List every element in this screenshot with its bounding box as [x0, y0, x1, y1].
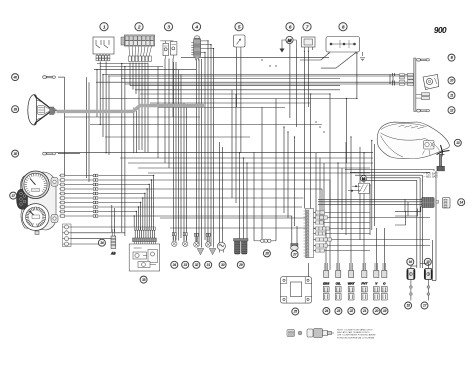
circle label 23 [335, 308, 342, 315]
wire [142, 198, 144, 227]
wire [144, 194, 146, 228]
wire [98, 175, 153, 177]
wire [130, 85, 340, 87]
junction [136, 211, 137, 212]
wire [196, 59, 198, 242]
turn arrow left [197, 249, 204, 255]
instrument cluster body [20, 172, 56, 230]
HT lead [427, 280, 429, 301]
connector 14 small [436, 201, 439, 204]
circle label 27 [291, 251, 298, 258]
svg-text:22: 22 [349, 309, 354, 313]
ignition coil [234, 239, 249, 255]
cluster bottom stub [35, 231, 39, 235]
wire [180, 75, 182, 239]
wire [314, 245, 316, 247]
wire [65, 215, 94, 217]
wire [325, 228, 327, 270]
wire [96, 70, 98, 117]
switch connector strip A [134, 227, 155, 230]
wire [98, 193, 144, 195]
wire [416, 180, 418, 268]
svg-text:34: 34 [173, 263, 177, 267]
indicator bulb 33 [183, 233, 188, 247]
wire [129, 63, 131, 86]
inline splice marks [393, 73, 395, 86]
tail connector stack 1 [408, 73, 414, 85]
circle label 18 [405, 302, 412, 309]
wire [407, 202, 409, 216]
wire [98, 216, 291, 226]
battery cable stub [437, 155, 445, 171]
tail mid connectors [416, 93, 430, 100]
tail bullet bottom [417, 109, 430, 112]
wire [154, 230, 156, 238]
wire [314, 233, 316, 235]
wire [283, 127, 285, 213]
circle label 30 [219, 261, 226, 268]
svg-text:M: M [362, 176, 366, 181]
circle label 40 [12, 74, 19, 81]
wire [356, 53, 358, 98]
wire [325, 250, 371, 252]
circle label 32 [193, 261, 200, 268]
wire [235, 94, 237, 203]
wire [404, 199, 406, 212]
circle label 37 [10, 192, 17, 199]
wire [86, 77, 88, 178]
circle label 17 [421, 302, 428, 309]
wire [296, 226, 298, 244]
wire [150, 180, 152, 227]
svg-text:18: 18 [406, 304, 410, 308]
junction dots [96, 40, 372, 185]
circle label 39 [12, 106, 19, 113]
wire [140, 93, 330, 95]
svg-text:OIL: OIL [336, 281, 341, 285]
cluster terminals [59, 174, 65, 217]
wire [392, 76, 394, 82]
wire [128, 162, 373, 164]
wire [240, 50, 242, 153]
wire [120, 157, 373, 159]
wire [135, 108, 137, 153]
wire [71, 243, 106, 245]
seat note text [423, 172, 439, 178]
wire [332, 239, 431, 241]
relay box 1 [93, 37, 114, 56]
wire [318, 198, 422, 200]
circle label 31 [205, 261, 212, 268]
sensor WAT [348, 263, 356, 300]
wire [105, 136, 250, 138]
circle label 36 [98, 239, 105, 246]
legend connector big [284, 329, 334, 345]
wire [135, 89, 340, 91]
svg-text:14: 14 [460, 200, 464, 204]
wire [363, 153, 365, 270]
wire [65, 206, 94, 208]
wire [110, 75, 408, 77]
wire [304, 51, 306, 209]
wire [395, 211, 406, 225]
sensor ESS [323, 263, 330, 300]
coil 16 symbol [407, 269, 415, 280]
box 5 [234, 35, 246, 50]
wire [98, 206, 302, 208]
wire [369, 185, 371, 235]
wire [147, 63, 149, 153]
wire [355, 174, 422, 176]
mid connector strip [93, 174, 98, 217]
fuse box 2 [121, 35, 155, 46]
wire [147, 230, 149, 238]
wire [359, 147, 361, 240]
horn 30 [217, 242, 225, 252]
svg-text:10: 10 [450, 79, 454, 83]
svg-text:19: 19 [383, 309, 387, 313]
wire [170, 227, 324, 229]
wire [138, 63, 140, 151]
wire [261, 107, 263, 239]
wire [138, 207, 140, 227]
wire [308, 263, 310, 277]
wire [323, 163, 325, 228]
control unit 25 [280, 277, 311, 303]
wire [321, 52, 357, 68]
wire [314, 250, 316, 252]
wire [419, 178, 421, 268]
warning light panel [17, 189, 28, 209]
wire [135, 212, 137, 228]
wire [198, 59, 200, 246]
wire [103, 74, 408, 76]
junction [149, 184, 150, 185]
circle label 35 [140, 276, 147, 283]
wire [71, 232, 125, 234]
junction [151, 179, 152, 180]
wire [178, 70, 180, 241]
svg-text:35: 35 [142, 278, 146, 282]
svg-text:DAL LATO CAVI. TENERE CONTO: DAL LATO CAVI. TENERE CONTO [337, 331, 370, 334]
svg-text:POSIZIONI DIVERSE DALLO SCHEMA: POSIZIONI DIVERSE DALLO SCHEMA [337, 336, 375, 339]
wire [411, 266, 417, 269]
circle label 4 [192, 23, 200, 31]
wire [148, 185, 150, 228]
relay 3 [160, 41, 177, 59]
wire [100, 66, 163, 68]
wire [172, 59, 174, 118]
junction [134, 215, 135, 216]
wire [153, 176, 155, 228]
wire [204, 52, 206, 240]
wire [65, 197, 94, 199]
connector 14 plug [422, 198, 435, 208]
wire [71, 226, 134, 228]
ecu box 8 [326, 37, 365, 61]
wire [175, 62, 177, 241]
wire [431, 240, 433, 281]
svg-text:32: 32 [195, 263, 199, 267]
circle label 20 [373, 308, 380, 315]
wire [314, 228, 316, 230]
wire [350, 171, 430, 173]
harness band [57, 106, 205, 112]
wire [160, 217, 316, 219]
wire [246, 163, 248, 239]
wire [65, 193, 94, 195]
wire [421, 175, 423, 268]
wire [181, 56, 329, 58]
wire [328, 245, 431, 247]
wire [141, 63, 143, 151]
wire [253, 152, 255, 241]
switch connector strip B [133, 238, 157, 242]
wire [157, 67, 159, 159]
wire [132, 63, 134, 90]
circle label 14 [458, 199, 465, 206]
wire [64, 77, 66, 176]
wire [373, 144, 375, 226]
wire [65, 211, 94, 213]
circle label 34 [171, 261, 178, 268]
tachometer [22, 204, 49, 231]
wire [145, 230, 147, 238]
svg-text:AB: AB [110, 252, 116, 256]
wire [289, 44, 291, 118]
legend note text [337, 329, 376, 340]
junction [140, 202, 141, 203]
wire [65, 179, 94, 181]
indicator bulb 34 [172, 233, 177, 247]
circle label 29 [237, 261, 244, 268]
harness band tail [414, 58, 416, 112]
terminal column [63, 224, 72, 247]
bullet connector bottom [43, 152, 56, 155]
circle label 8 [339, 23, 347, 31]
legend plus [298, 331, 302, 335]
circle label 9 [448, 54, 455, 61]
wire [315, 153, 317, 218]
sub connectors [316, 211, 332, 252]
wire [314, 239, 316, 241]
circle label 2 [135, 23, 143, 31]
wire [207, 41, 209, 242]
svg-text:38: 38 [13, 152, 17, 156]
circle label 22 [348, 308, 355, 315]
wire [231, 90, 233, 198]
wire [213, 49, 215, 248]
wire [121, 64, 123, 233]
wire [113, 208, 115, 232]
circle label 21 [361, 308, 368, 315]
inline connector [254, 239, 276, 242]
circle label 15 [424, 258, 431, 265]
left switch unit 35 [129, 242, 160, 271]
circle label 7 [303, 23, 311, 31]
wire [97, 63, 148, 65]
wire [98, 211, 136, 213]
wire [287, 132, 289, 218]
circle label 19 [381, 308, 388, 315]
seat hook [437, 145, 450, 157]
wire [98, 202, 140, 204]
circle label 12 [448, 107, 455, 114]
wire [136, 230, 138, 238]
wire [300, 53, 329, 60]
wire [345, 170, 434, 172]
wire [371, 141, 373, 231]
svg-text:20: 20 [374, 309, 379, 313]
key switch connector 4 [191, 36, 213, 61]
wire [164, 59, 166, 164]
svg-text:21: 21 [362, 309, 367, 313]
svg-text:12: 12 [450, 108, 454, 112]
wire [222, 147, 224, 243]
wire [102, 75, 104, 138]
wire [105, 62, 107, 153]
connector 14 socket [443, 198, 451, 209]
wire [88, 82, 90, 182]
circle label 38 [12, 150, 19, 157]
circle label 28 [263, 250, 270, 257]
svg-text:24: 24 [324, 309, 329, 313]
wire [100, 98, 357, 100]
junction [138, 206, 139, 207]
wire [329, 94, 331, 270]
circle label 5 [235, 23, 243, 31]
wire [337, 163, 339, 270]
cluster tab bottom [51, 215, 58, 223]
wire [151, 230, 153, 238]
svg-text:25: 25 [293, 310, 298, 314]
circle label 16 [407, 258, 414, 265]
wire [65, 188, 94, 190]
wire [96, 81, 408, 83]
wire [141, 230, 143, 238]
wire [65, 202, 94, 204]
main connector strip [304, 209, 314, 258]
wire [345, 142, 347, 235]
fuse AB [110, 229, 116, 256]
wire [365, 179, 417, 181]
circle label 1 [100, 23, 108, 31]
wire [330, 228, 371, 230]
junction [153, 175, 154, 176]
junction [146, 188, 147, 189]
wire [432, 280, 436, 282]
wire [314, 222, 316, 224]
wire [325, 212, 371, 214]
fuse box wires [129, 47, 151, 57]
HT lead [410, 280, 412, 301]
circle label 11 [448, 92, 455, 99]
flasher 7 [302, 37, 316, 50]
legend connector small [287, 330, 295, 337]
wire [65, 175, 94, 177]
wire [308, 51, 310, 107]
wire [435, 171, 437, 281]
indicator bulb 31 [206, 233, 211, 247]
wire [149, 230, 151, 238]
wire [219, 142, 221, 243]
wire [319, 158, 321, 223]
wire [310, 94, 312, 209]
speedometer [22, 171, 50, 199]
starter motor [348, 175, 370, 193]
wire [210, 45, 212, 246]
svg-text:30: 30 [221, 263, 225, 267]
circle label 10 [448, 77, 455, 84]
svg-text:36: 36 [100, 241, 104, 245]
svg-text:23: 23 [336, 309, 341, 313]
wire [291, 226, 293, 244]
wire [58, 76, 65, 78]
wire [108, 76, 110, 155]
wire [158, 107, 285, 109]
spark plug 27 [291, 244, 299, 251]
wire [201, 59, 203, 248]
wire [90, 124, 322, 126]
seat tail body [377, 122, 449, 159]
wire [295, 48, 297, 127]
wire [384, 228, 386, 270]
wire [168, 59, 170, 169]
wire [124, 67, 126, 237]
svg-text:11: 11 [450, 93, 453, 97]
svg-text:28: 28 [264, 252, 269, 256]
wire [314, 212, 316, 214]
circle label 6 [286, 23, 294, 31]
motor 6 [280, 36, 297, 52]
wire [186, 108, 188, 241]
svg-text:29: 29 [238, 263, 243, 267]
wire [111, 205, 113, 232]
circle label 25 [292, 308, 299, 315]
svg-text:31: 31 [207, 263, 211, 267]
svg-text:CHE I COMPONENTI POSSONO AVERE: CHE I COMPONENTI POSSONO AVERE [337, 334, 376, 337]
wire [318, 203, 422, 205]
wire [134, 230, 136, 238]
svg-text:13: 13 [456, 141, 460, 145]
bullet connector top [43, 76, 56, 79]
wire [121, 78, 340, 80]
wire [98, 197, 303, 199]
wire [328, 217, 431, 219]
circle label 24 [323, 308, 330, 315]
svg-text:— POS. BATT.: — POS. BATT. [423, 172, 439, 175]
cluster tab top [51, 178, 58, 187]
sensor OIL [335, 263, 341, 300]
battery bracket [423, 141, 435, 156]
wire [173, 62, 175, 241]
svg-text:NOTE: I CONNETTORI VANNO VISTI: NOTE: I CONNETTORI VANNO VISTI [337, 329, 373, 332]
wire [71, 238, 111, 240]
wire [346, 99, 348, 164]
wire [138, 167, 370, 169]
wire [150, 102, 310, 104]
wire [294, 137, 296, 226]
wire [350, 137, 352, 270]
svg-text:WAT: WAT [348, 281, 356, 285]
wire [275, 99, 277, 241]
wire [146, 189, 148, 227]
wire [133, 216, 135, 227]
svg-text:ESS: ESS [323, 281, 330, 285]
wire [360, 177, 420, 179]
tail connector stack 2 [400, 74, 405, 86]
sensor O [381, 263, 387, 300]
